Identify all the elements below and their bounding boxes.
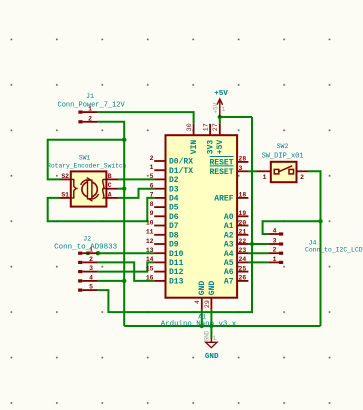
svg-text:5: 5 (89, 284, 93, 291)
J2 pin 4 (78, 274, 97, 282)
svg-text:D9: D9 (169, 241, 179, 250)
svg-text:16: 16 (146, 275, 154, 282)
svg-text:D2: D2 (169, 176, 179, 185)
SW1 right contacts (103, 179, 107, 188)
wire long GND vertical (123, 140, 125, 326)
svg-text:25: 25 (239, 265, 247, 272)
wire A3 to J4 pin3 (248, 243, 268, 245)
svg-text:A0: A0 (224, 213, 234, 222)
svg-text:6: 6 (150, 183, 154, 190)
power symbol +5V (219, 100, 221, 117)
svg-text:10: 10 (146, 219, 154, 226)
IC pin 13 D10 (146, 247, 184, 259)
wire J4 pin4 to GND vertical (263, 221, 321, 234)
svg-text:A: A (108, 191, 112, 198)
IC pin 18 AREF (237, 197, 248, 199)
svg-text:Rotary_Encoder_Switch: Rotary_Encoder_Switch (47, 162, 127, 169)
SW2 lever (279, 166, 292, 172)
svg-text:RESET: RESET (209, 168, 233, 177)
svg-text:26: 26 (239, 275, 247, 282)
svg-text:Conn_to_AD9833: Conn_to_AD9833 (54, 244, 118, 252)
svg-text:A2: A2 (224, 231, 234, 240)
svg-text:GND: GND (208, 281, 217, 296)
svg-text:S2: S2 (61, 173, 69, 180)
svg-text:3: 3 (89, 265, 93, 272)
svg-text:1: 1 (150, 164, 154, 171)
wire +5V to pin 27 (219, 117, 221, 124)
svg-text:14: 14 (146, 256, 154, 263)
svg-text:D8: D8 (169, 231, 179, 240)
IC pin 25 A6 (224, 265, 249, 277)
svg-text:+5V: +5V (216, 140, 225, 155)
IC pin 26 A7 (224, 275, 249, 287)
svg-text:1: 1 (263, 174, 267, 181)
svg-text:D1/TX: D1/TX (169, 167, 193, 176)
wire SW1 B to D2 (118, 178, 154, 180)
J4 pin 1 (268, 256, 283, 264)
svg-text:B: B (108, 173, 112, 180)
IC pin 14 D11 (146, 256, 184, 268)
svg-text:19: 19 (239, 210, 247, 217)
SW1 pin C (106, 188, 118, 190)
svg-text:3: 3 (239, 165, 243, 172)
svg-text:1: 1 (213, 335, 217, 342)
svg-text:2: 2 (150, 155, 154, 162)
SW1 encoder circle (82, 182, 97, 197)
wire SW1 C to GND vertical (118, 188, 124, 190)
IC pin 2 D0/RX (150, 155, 194, 167)
IC pin 16 D13 (146, 275, 184, 287)
svg-text:A5: A5 (224, 259, 234, 268)
wire J1 pin1 to VIN (+7-12V net) (97, 112, 193, 124)
svg-text:22: 22 (239, 238, 247, 245)
SW1 rotation arrow top (81, 180, 88, 185)
svg-text:12: 12 (146, 238, 154, 245)
wire A4 to J4 pin2 (248, 252, 268, 254)
wire stub on J2 pin1 (86, 251, 89, 255)
SW1 pin S1 (60, 197, 71, 199)
junction A3/J4.3/+5V vertical (250, 242, 254, 246)
junction J2.4/GND vertical (122, 279, 126, 283)
junction pin4/GND rail (200, 324, 204, 328)
junction +5V node (218, 115, 222, 119)
wire J2 pin3 to D11 jog (97, 262, 154, 271)
J4 pin 2 (268, 247, 283, 255)
SW1 pin B (106, 178, 118, 180)
wire +5V symbol to right vertical (220, 116, 252, 118)
svg-text:J2: J2 (83, 235, 91, 242)
IC pin 6 D3 (150, 183, 179, 195)
svg-text:17: 17 (203, 123, 210, 131)
svg-text:GND: GND (198, 281, 207, 296)
J2 pin 3 (78, 265, 97, 273)
svg-text:D12: D12 (169, 268, 184, 277)
J4 pin 3 (268, 238, 283, 246)
wire GND branch left to SW1 S2 (48, 140, 125, 180)
wire J2 pin1 to D10 (97, 252, 154, 254)
IC pin 12 D9 (146, 238, 179, 250)
wire SW2 pin2 down to GND rail (308, 171, 321, 326)
svg-text:13: 13 (146, 247, 154, 254)
svg-text:D13: D13 (169, 278, 184, 287)
svg-text:D6: D6 (169, 213, 179, 222)
svg-text:2: 2 (88, 115, 92, 122)
wire IC GND pin4 down to rail (201, 309, 203, 326)
svg-text:8: 8 (150, 201, 154, 208)
wire SW1 A to D3 (118, 189, 154, 198)
svg-text:4: 4 (89, 274, 93, 281)
IC pin 27 +5V (219, 124, 221, 135)
IC pin 9 D6 (150, 210, 179, 222)
IC pin 7 D4 (150, 192, 179, 204)
wire J2 pin2 to D13 jog (97, 262, 154, 281)
IC pin 24 A5 (224, 256, 249, 268)
svg-text:Arduino_Nano_v3.x: Arduino_Nano_v3.x (161, 320, 237, 328)
svg-text:1: 1 (222, 106, 226, 113)
SW2 pin 1 (257, 170, 271, 172)
IC pin 4 GND (201, 298, 203, 309)
svg-text:VIN: VIN (190, 140, 199, 155)
svg-text:+5V: +5V (213, 102, 220, 113)
SW2 pin 2 (297, 170, 309, 172)
IC pin 19 A0 (224, 210, 249, 222)
svg-text:A6: A6 (224, 268, 234, 277)
J2 pin 1 (78, 247, 97, 255)
svg-text:2: 2 (300, 174, 304, 181)
svg-text:30: 30 (186, 123, 193, 131)
svg-text:GND: GND (203, 330, 210, 341)
svg-text:A4: A4 (224, 250, 234, 259)
svg-text:18: 18 (239, 192, 247, 199)
svg-text:5: 5 (150, 173, 154, 180)
svg-text:27: 27 (212, 123, 219, 131)
SW2 contacts (274, 169, 279, 174)
svg-text:3V3: 3V3 (207, 140, 216, 155)
svg-text:D10: D10 (169, 250, 184, 259)
IC A1 Arduino_Nano_v3.x body (166, 135, 238, 298)
IC pin 1 D1/TX (150, 164, 194, 176)
wire SW1 S1 to D4 (48, 198, 155, 221)
IC pin 17 3V3 (209, 124, 211, 135)
SW1 S-pole bracket (72, 179, 77, 198)
J4 pin 4 (268, 228, 283, 236)
svg-text:9: 9 (150, 210, 154, 217)
ground symbol (210, 338, 212, 343)
svg-text:4: 4 (194, 300, 201, 304)
svg-text:D7: D7 (169, 222, 179, 231)
wire J2 pin5 to +5V rail (97, 117, 252, 312)
svg-text:3: 3 (273, 238, 277, 245)
IC pin 28 RESET (237, 161, 248, 163)
wire J2 pin4 to GND vertical (97, 280, 124, 282)
SW1 encoder bar (88, 180, 92, 199)
svg-text:15: 15 (146, 265, 154, 272)
switch SW1 Rotary_Encoder_Switch body (71, 171, 107, 206)
IC pin 30 VIN (193, 124, 195, 135)
svg-text:GND: GND (205, 353, 219, 361)
svg-text:Conn_to_I2C_LCD: Conn_to_I2C_LCD (305, 246, 363, 253)
J1 pin 1 (78, 106, 97, 114)
svg-text:SW_DIP_x01: SW_DIP_x01 (262, 152, 304, 160)
svg-text:28: 28 (239, 156, 247, 163)
J2 pin 2 (78, 256, 97, 264)
svg-text:11: 11 (146, 229, 154, 236)
IC pin 22 A3 (224, 238, 249, 250)
IC pin 21 A2 (224, 229, 249, 241)
svg-text:C: C (108, 182, 112, 189)
svg-text:J4: J4 (309, 239, 317, 246)
IC pin 29 GND (210, 298, 212, 309)
svg-text:J1: J1 (86, 93, 94, 100)
svg-text:21: 21 (239, 229, 247, 236)
SW1 pin S2 (60, 178, 71, 180)
svg-text:D4: D4 (169, 195, 179, 204)
wire SW2 vertical over J4 label (320, 245, 322, 257)
J2 pin 5 (78, 284, 97, 292)
wire J1 pin2 down to GND node (97, 122, 124, 140)
svg-text:SW1: SW1 (79, 155, 91, 162)
junction C/GND vertical (122, 187, 126, 191)
svg-text:Conn_Power_7_12V: Conn_Power_7_12V (58, 101, 126, 109)
svg-text:24: 24 (239, 256, 247, 263)
junction J1.2/S2/GND vertical (122, 138, 126, 142)
svg-text:A1: A1 (224, 222, 234, 231)
svg-text:SW2: SW2 (277, 143, 289, 150)
svg-text:AREF: AREF (214, 195, 233, 204)
svg-text:D11: D11 (169, 259, 184, 268)
svg-text:A3: A3 (224, 241, 234, 250)
svg-text:7: 7 (150, 192, 154, 199)
wire GND bottom rail (124, 325, 320, 327)
svg-text:A7: A7 (224, 278, 234, 287)
svg-text:D5: D5 (169, 204, 179, 213)
IC pin 20 A1 (224, 219, 249, 231)
wire A5 to J4 pin1 (248, 261, 268, 263)
IC pin 3 RESET (237, 170, 248, 172)
IC pin 5 D2 (150, 173, 179, 185)
svg-text:D0/RX: D0/RX (169, 158, 193, 167)
IC pin 23 A4 (224, 247, 249, 259)
IC pin 10 D7 (146, 219, 179, 231)
IC pin 15 D12 (146, 265, 184, 277)
IC pin 11 D8 (146, 229, 179, 241)
switch SW2 SW_DIP_x01 body (271, 162, 297, 182)
junction on J2 pin1 wire (96, 251, 100, 255)
svg-text:S1: S1 (61, 191, 69, 198)
svg-text:4: 4 (273, 228, 277, 235)
SW1 rotation arrow bottom (92, 194, 99, 199)
svg-text:1: 1 (273, 256, 277, 263)
svg-text:2: 2 (273, 247, 277, 254)
svg-text:D3: D3 (169, 185, 179, 194)
SW1 pin A (106, 197, 118, 199)
svg-text:23: 23 (239, 247, 247, 254)
wire RESET pin3 to SW2 pin1 (248, 170, 257, 172)
IC pin 8 D5 (150, 201, 179, 213)
svg-text:29: 29 (204, 300, 211, 308)
junction pin29/GND rail (209, 324, 213, 328)
junction J4.4/SW2.2 vertical (318, 219, 322, 223)
svg-text:+5V: +5V (214, 90, 228, 98)
wire IC GND pin29 down to GND symbol (210, 309, 212, 338)
J1 pin 2 (78, 115, 97, 123)
svg-text:20: 20 (239, 219, 247, 226)
svg-text:2: 2 (89, 256, 93, 263)
